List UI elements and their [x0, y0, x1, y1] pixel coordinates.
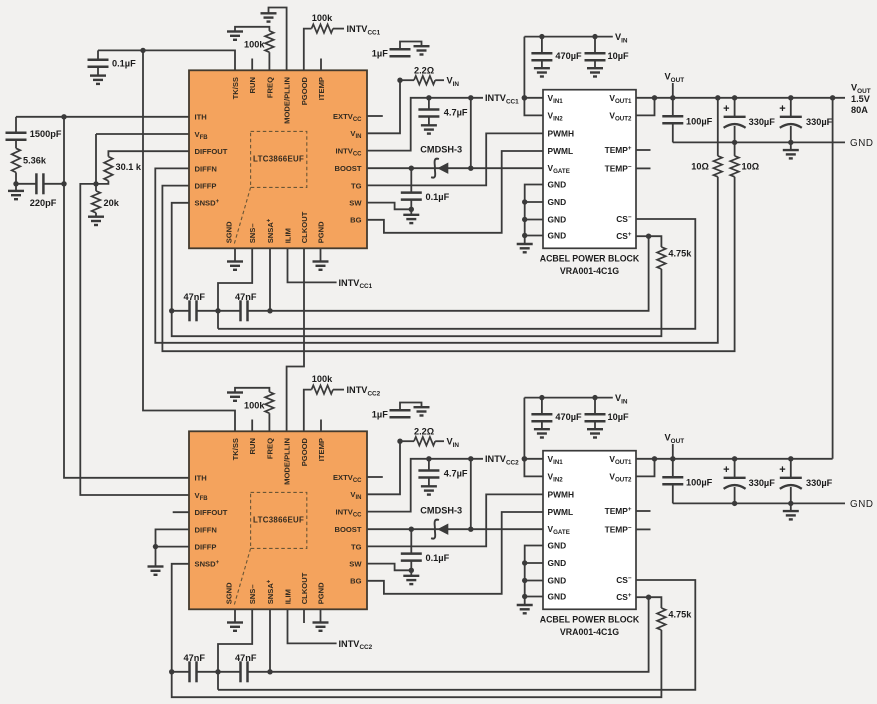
node VOUT label phase 1	[665, 72, 685, 101]
wire VIN riser to VIN1/VIN2 phase 1	[524, 37, 543, 116]
capacitor 470uF phase 1	[531, 34, 552, 68]
node TK/SS share	[140, 48, 145, 53]
label 10uF phase 2	[608, 412, 630, 422]
svg-text:DIFFP: DIFFP	[195, 182, 217, 191]
ground PGND1	[313, 248, 329, 269]
node INTVCC1 rail label	[485, 93, 519, 105]
ground 470uF phase 1	[534, 68, 550, 76]
svg-text:TK/SS: TK/SS	[231, 77, 240, 99]
capacitor 10uF phase 2	[585, 395, 606, 429]
label 100k (FREQ2)	[244, 400, 265, 410]
node CS+1	[646, 234, 651, 239]
capacitor 0.1uF soft-start	[88, 50, 109, 75]
label 100k (PGOOD2)	[312, 374, 333, 384]
label 47nF A phase 2	[184, 653, 206, 663]
label 330uF A phase 1	[749, 117, 776, 127]
wire TEMP+ stub phase 2	[636, 510, 651, 512]
svg-text:TEMP−: TEMP−	[605, 524, 632, 534]
svg-text:DIFFN: DIFFN	[195, 525, 217, 534]
wire VFB riser	[95, 134, 97, 184]
resistor 10ohm B	[730, 142, 739, 176]
svg-text:ACBEL POWER BLOCK: ACBEL POWER BLOCK	[540, 253, 640, 263]
resistor 30.1k	[96, 151, 189, 184]
node SNSA+2 junction	[267, 669, 272, 674]
wire GND bus phase 1	[522, 185, 543, 245]
wire SNS-1 jog	[218, 248, 252, 328]
svg-text:CLKOUT: CLKOUT	[300, 211, 309, 243]
wire INTVCC2 to VGATE drop	[468, 456, 473, 532]
svg-text:100k: 100k	[312, 374, 333, 384]
wire SNSD+1 to 4.75k	[172, 269, 662, 336]
node INTVCC1 to VIN1 dot	[522, 95, 527, 100]
capacitor 47nF B phase 2	[197, 661, 248, 682]
resistor 2.2ohm phase 2	[400, 437, 444, 446]
diode CMDSH-3 phase 1	[431, 159, 448, 178]
svg-text:SGND: SGND	[225, 582, 234, 604]
op-amp U2 LTC3866EUF controller	[189, 431, 367, 609]
node INTVCC2 to VIN1 dot	[522, 456, 527, 461]
resistor 10ohm A	[714, 98, 723, 177]
svg-text:MODE/PLLIN: MODE/PLLIN	[283, 438, 292, 485]
svg-text:TEMP−: TEMP−	[605, 163, 632, 173]
wire ITH1	[16, 116, 189, 118]
node 10ohm A rail tap	[715, 95, 720, 100]
svg-text:4.7µF: 4.7µF	[444, 108, 468, 118]
label 1uF phase 1	[372, 48, 388, 58]
svg-text:4.75k: 4.75k	[668, 610, 692, 620]
capacitor 47nF A phase 1	[172, 300, 197, 321]
wire RUN1 stub	[251, 59, 253, 71]
capacitor 330uF B phase 1	[779, 95, 802, 145]
node SNSA+1 junction	[267, 308, 272, 313]
label 5.36k	[23, 155, 47, 165]
wire SNSA+2	[269, 609, 271, 672]
svg-text:30.1 k: 30.1 k	[116, 162, 142, 172]
wire SW1	[367, 203, 411, 210]
label 0.1uF boost phase 1	[426, 192, 450, 202]
svg-text:LTC3866EUF: LTC3866EUF	[253, 154, 304, 163]
label 1uF phase 2	[372, 409, 388, 419]
capacitor 1uF phase 2	[390, 403, 422, 418]
svg-text:RUN: RUN	[248, 438, 257, 454]
wire SNSD+2 to 4.75k	[172, 630, 662, 697]
node CS+2	[646, 595, 651, 600]
node SW2 junction	[409, 568, 414, 573]
wire VOUT2 join phase 2	[636, 456, 657, 476]
svg-text:GND: GND	[548, 541, 567, 551]
capacitor 1uF phase 1	[390, 42, 422, 57]
ground MODE/PLLIN1	[261, 13, 277, 21]
svg-text:10µF: 10µF	[608, 51, 630, 61]
svg-text:330µF: 330µF	[806, 117, 833, 127]
ground power block 1	[517, 244, 533, 252]
svg-text:ILIM: ILIM	[284, 228, 293, 243]
wire GND bus phase 2	[522, 546, 543, 606]
svg-text:+: +	[723, 464, 729, 476]
label 100k (FREQ1)	[244, 39, 265, 49]
ground 1uF phase 2	[414, 407, 430, 415]
ground 4.7uF phase 2	[421, 486, 437, 494]
svg-text:+: +	[779, 103, 785, 115]
svg-text:20k: 20k	[104, 198, 120, 208]
node VIN rail label phase 2	[615, 393, 628, 405]
svg-text:VRA001-4C1G: VRA001-4C1G	[560, 627, 619, 637]
node VIN1 junction phase 1	[522, 95, 543, 100]
label 100k (PGOOD1)	[312, 13, 333, 23]
svg-text:1500pF: 1500pF	[30, 129, 62, 139]
svg-text:PWMH: PWMH	[548, 489, 575, 499]
svg-text:FREQ: FREQ	[265, 438, 274, 459]
ground output phase 2	[783, 503, 799, 519]
wire INTVCC1 pin riser	[367, 98, 483, 151]
svg-text:PWMH: PWMH	[548, 128, 575, 138]
svg-text:VRA001-4C1G: VRA001-4C1G	[560, 266, 619, 276]
wire CLKOUT1 to MODE/PLLIN2	[287, 248, 304, 431]
svg-text:GND: GND	[850, 499, 874, 510]
svg-text:5.36k: 5.36k	[23, 155, 47, 165]
wire EXTVCC2 stub	[367, 476, 383, 478]
label 30.1k	[116, 162, 142, 172]
node VOUT output label	[851, 83, 871, 95]
node VFB divider	[93, 181, 98, 186]
svg-text:100µF: 100µF	[686, 478, 713, 488]
capacitor 330uF B phase 2	[779, 456, 802, 506]
svg-text:4.75k: 4.75k	[668, 249, 692, 259]
ground FREQ1 resistor	[227, 32, 243, 40]
svg-text:TK/SS: TK/SS	[231, 438, 240, 460]
wire GND line phase 1	[673, 141, 845, 143]
node VIN net label phase 1	[447, 76, 460, 88]
wire VFB1	[96, 133, 189, 135]
wire TG2 to PWMH	[367, 494, 543, 546]
svg-text:CLKOUT: CLKOUT	[300, 572, 309, 604]
wire CS- line phase 2	[218, 580, 695, 690]
node INTVCC2 PGOOD pullup	[347, 385, 381, 397]
label 330uF B phase 2	[806, 478, 833, 488]
label 4.75k phase 2	[668, 610, 692, 620]
svg-text:0.1µF: 0.1µF	[426, 553, 450, 563]
resistor 2.2ohm phase 1	[400, 76, 444, 85]
label 10ohm A	[691, 161, 709, 171]
capacitor 0.1uF boost phase 2	[401, 529, 422, 570]
wire BOOST2 to VGATE	[367, 528, 543, 530]
node INTVCC1 PGOOD pullup	[347, 24, 381, 36]
node BOOST1 cap tap	[409, 166, 414, 171]
svg-text:ITH: ITH	[195, 113, 207, 122]
wire VOUT tie phase1-phase2	[832, 98, 834, 459]
node SNSD+2 junction	[169, 669, 174, 674]
wire VOUT rail phase 2	[636, 458, 833, 460]
label 0.1uF soft-start	[112, 58, 136, 68]
wire SW2	[367, 564, 411, 571]
capacitor 47nF A phase 2	[172, 661, 197, 682]
node VIN net label phase 2	[447, 437, 460, 449]
capacitor 220pF	[16, 173, 64, 194]
node ITH share	[61, 114, 66, 119]
capacitor 0.1uF boost phase 1	[401, 168, 422, 209]
wire CLKOUT2 stub	[303, 609, 305, 623]
label 330uF B phase 1	[806, 117, 833, 127]
svg-text:+: +	[723, 103, 729, 115]
svg-text:220pF: 220pF	[30, 198, 57, 208]
svg-text:47nF: 47nF	[184, 292, 206, 302]
label GND phase 2	[850, 499, 874, 510]
wire EXTVCC1 stub	[367, 115, 383, 117]
label CMDSH-3 phase 2	[420, 505, 462, 515]
label ACBEL POWER BLOCK 1	[540, 253, 640, 263]
svg-text:330µF: 330µF	[806, 478, 833, 488]
svg-text:GND: GND	[548, 231, 567, 241]
ground FREQ2 resistor	[227, 393, 243, 401]
label 10uF phase 1	[608, 51, 630, 61]
svg-text:PGOOD: PGOOD	[300, 76, 309, 105]
node INTVCC1 ILIM tie	[339, 278, 373, 290]
capacitor 330uF A phase 1	[723, 95, 746, 145]
wire SNS-2 jog	[218, 609, 252, 690]
svg-text:47nF: 47nF	[235, 292, 257, 302]
ground 10uF phase 2	[587, 429, 603, 437]
wire VIN1 pin	[367, 80, 400, 133]
wire TK/SS shared riser	[143, 50, 235, 431]
svg-text:0.1µF: 0.1µF	[426, 192, 450, 202]
capacitor 10uF phase 1	[585, 34, 606, 68]
svg-text:GND: GND	[548, 592, 567, 602]
wire INTVCC2 pin riser	[367, 459, 483, 512]
node SW1 junction	[409, 207, 414, 212]
wire SNSA+1	[269, 248, 271, 310]
label 100uF phase 1	[686, 117, 713, 127]
node SNS-1 junction	[215, 308, 220, 313]
svg-text:100µF: 100µF	[686, 117, 713, 127]
diode CMDSH-3 phase 2	[431, 520, 448, 539]
label 4.7uF phase 2	[444, 469, 468, 479]
label VRA001-4C1G 2	[560, 627, 619, 637]
svg-text:DIFFN: DIFFN	[195, 164, 217, 173]
label 220pF	[30, 198, 57, 208]
svg-text:MODE/PLLIN: MODE/PLLIN	[283, 77, 292, 124]
svg-text:100k: 100k	[312, 13, 333, 23]
svg-text:10Ω: 10Ω	[742, 161, 760, 171]
label 20k	[104, 198, 120, 208]
svg-text:GND: GND	[548, 576, 567, 586]
svg-text:2.2Ω: 2.2Ω	[414, 426, 434, 436]
ground 470uF phase 2	[534, 429, 550, 437]
node VOUT label phase 2	[665, 433, 685, 462]
label VRA001-4C1G 1	[560, 266, 619, 276]
wire TG1 to PWMH	[367, 133, 543, 185]
svg-text:4.7µF: 4.7µF	[444, 469, 468, 479]
capacitor 470uF phase 2	[531, 395, 552, 429]
ground soft-start cap	[90, 76, 106, 84]
wire DIFFN2 tie	[156, 529, 190, 546]
svg-text:PWML: PWML	[548, 507, 574, 517]
wire RUN2 stub	[251, 420, 253, 432]
resistor 100k PGOOD2 pullup	[304, 385, 344, 431]
svg-text:470µF: 470µF	[555, 412, 582, 422]
wire VIN rail phase 2	[524, 397, 612, 399]
wire CS+2 pin stub	[636, 596, 649, 598]
ground SW1	[403, 209, 419, 223]
svg-text:TEMP+: TEMP+	[605, 145, 632, 155]
label 47nF B phase 2	[235, 653, 257, 663]
svg-text:100k: 100k	[244, 39, 265, 49]
label 470uF phase 1	[555, 51, 582, 61]
svg-text:PGND: PGND	[317, 221, 326, 243]
resistor 100k FREQ1 pulldown	[235, 27, 274, 71]
node VIN2 junction	[397, 439, 402, 444]
wire TK/SS1	[98, 50, 235, 70]
wire MODE/PLLIN1	[269, 8, 287, 71]
label 80A	[851, 105, 868, 115]
wire VIN rail phase 1	[524, 36, 612, 38]
ground 1uF phase 1	[414, 46, 430, 54]
wire DIFFP1 to 10ohm B	[162, 177, 734, 351]
svg-text:GND: GND	[548, 215, 567, 225]
svg-text:ITEMP: ITEMP	[317, 77, 326, 100]
node VIN1 junction	[397, 78, 402, 83]
wire VFB shared drop	[80, 184, 189, 495]
resistor 100k FREQ2 pulldown	[235, 388, 274, 432]
label 1.5V	[851, 94, 871, 104]
label 4.7uF phase 1	[444, 108, 468, 118]
capacitor 4.7uF phase 1	[418, 95, 439, 125]
wire VIN riser to VIN1/VIN2 phase 2	[524, 398, 543, 477]
resistor 20k	[92, 184, 101, 217]
wire SNSD+1	[172, 203, 189, 311]
svg-text:1µF: 1µF	[372, 48, 388, 58]
wire ILIM2 to INTVCC2	[288, 609, 337, 643]
svg-text:PGOOD: PGOOD	[300, 437, 309, 466]
svg-text:10Ω: 10Ω	[691, 161, 709, 171]
svg-text:47nF: 47nF	[235, 653, 257, 663]
node INTVCC2 rail label	[485, 454, 519, 466]
svg-text:DIFFOUT: DIFFOUT	[195, 147, 228, 156]
resistor 4.75k phase 1	[649, 236, 666, 269]
wire CS+ line phase 2	[248, 597, 649, 672]
label 4.75k phase 1	[668, 249, 692, 259]
ground SGND1	[227, 248, 243, 269]
label CMDSH-3 phase 1	[420, 144, 462, 154]
svg-text:BOOST: BOOST	[334, 164, 361, 173]
node SNS-2 junction	[215, 669, 220, 674]
node SNSD+1 junction	[169, 308, 174, 313]
capacitor 1500pF	[6, 117, 27, 149]
svg-text:DIFFOUT: DIFFOUT	[195, 508, 228, 517]
label 100uF phase 2	[686, 478, 713, 488]
wire BOOST1 to VGATE	[367, 167, 543, 169]
label 330uF A phase 2	[749, 478, 776, 488]
svg-text:47nF: 47nF	[184, 653, 206, 663]
svg-text:SW: SW	[349, 560, 362, 569]
ground PGND2	[313, 609, 329, 631]
wire VOUT2 join phase 1	[636, 95, 657, 115]
wire VOUT rail phase 1	[636, 97, 845, 99]
wire TEMP+ stub phase 1	[636, 149, 651, 151]
svg-text:PWML: PWML	[548, 146, 574, 156]
svg-text:ILIM: ILIM	[284, 589, 293, 604]
svg-text:PGND: PGND	[317, 582, 326, 604]
svg-text:DIFFP: DIFFP	[195, 543, 217, 552]
svg-text:0.1µF: 0.1µF	[112, 58, 136, 68]
resistor 5.36k	[12, 148, 21, 184]
wire DIFFOUT2 stub	[173, 511, 189, 513]
svg-text:1µF: 1µF	[372, 409, 388, 419]
svg-text:GND: GND	[850, 138, 874, 149]
wire INTVCC1 to VGATE drop	[468, 95, 473, 171]
label 47nF B phase 1	[235, 292, 257, 302]
ground power block 2	[517, 605, 533, 613]
svg-text:SGND: SGND	[225, 221, 234, 243]
ground DIFFP2	[148, 547, 164, 575]
label GND phase 1	[850, 138, 874, 149]
ground SW2	[403, 570, 419, 584]
svg-text:GND: GND	[548, 180, 567, 190]
wire TEMP- stub phase 1	[636, 167, 651, 169]
ground SGND2	[227, 609, 243, 631]
capacitor 100uF phase 1	[662, 98, 683, 143]
label 470uF phase 2	[555, 412, 582, 422]
svg-text:FREQ: FREQ	[265, 77, 274, 98]
svg-text:470µF: 470µF	[555, 51, 582, 61]
node VIN rail label phase 1	[615, 32, 628, 44]
wire SNSD+2	[172, 564, 189, 672]
wire ITH shared riser	[64, 117, 189, 478]
wire CS+ line phase 1	[248, 236, 649, 311]
svg-text:SNS–: SNS–	[248, 223, 257, 243]
svg-text:BG: BG	[350, 577, 361, 586]
svg-text:ITH: ITH	[195, 474, 207, 483]
svg-text:GND: GND	[548, 558, 567, 568]
svg-text:1.5V: 1.5V	[851, 94, 871, 104]
svg-text:80A: 80A	[851, 105, 868, 115]
svg-text:GND: GND	[548, 197, 567, 207]
svg-text:TG: TG	[351, 542, 362, 551]
svg-text:+: +	[779, 464, 785, 476]
node DIFFN2/DIFFP2 tie	[153, 544, 158, 549]
ground comp network	[8, 184, 24, 199]
op-amp U1 LTC3866EUF controller	[189, 70, 367, 248]
label 2.2ohm phase 1	[414, 65, 434, 75]
label 10ohm B	[742, 161, 760, 171]
ground 4.7uF phase 1	[421, 125, 437, 133]
wire BG1 to PWML	[367, 151, 543, 233]
svg-text:BOOST: BOOST	[334, 525, 361, 534]
node comp junction	[13, 181, 18, 186]
svg-text:330µF: 330µF	[749, 117, 776, 127]
node 220pF tap	[61, 181, 66, 186]
wire ILIM1 to INTVCC1	[288, 248, 337, 282]
wire DIFFP2 tie	[156, 546, 190, 548]
wire ITEMP2 stub	[320, 420, 322, 432]
capacitor 4.7uF phase 2	[418, 456, 439, 486]
power block U1B ACBEL	[543, 90, 636, 249]
resistor 100k PGOOD1 pullup	[304, 24, 344, 70]
wire TEMP- stub phase 2	[636, 528, 651, 530]
resistor 4.75k phase 2	[649, 597, 666, 630]
node BOOST2 cap tap	[409, 527, 414, 532]
wire GND line phase 2	[673, 502, 845, 504]
svg-text:RUN: RUN	[248, 77, 257, 93]
svg-text:100k: 100k	[244, 400, 265, 410]
svg-text:2.2Ω: 2.2Ω	[414, 65, 434, 75]
wire ITEMP1 stub	[320, 59, 322, 71]
svg-text:BG: BG	[350, 216, 361, 225]
wire CS+1 pin stub	[636, 235, 649, 237]
wire BG2 to PWML	[367, 512, 543, 594]
svg-text:LTC3866EUF: LTC3866EUF	[253, 515, 304, 524]
capacitor 330uF A phase 2	[723, 456, 746, 506]
wire CS- line phase 1	[218, 219, 695, 329]
